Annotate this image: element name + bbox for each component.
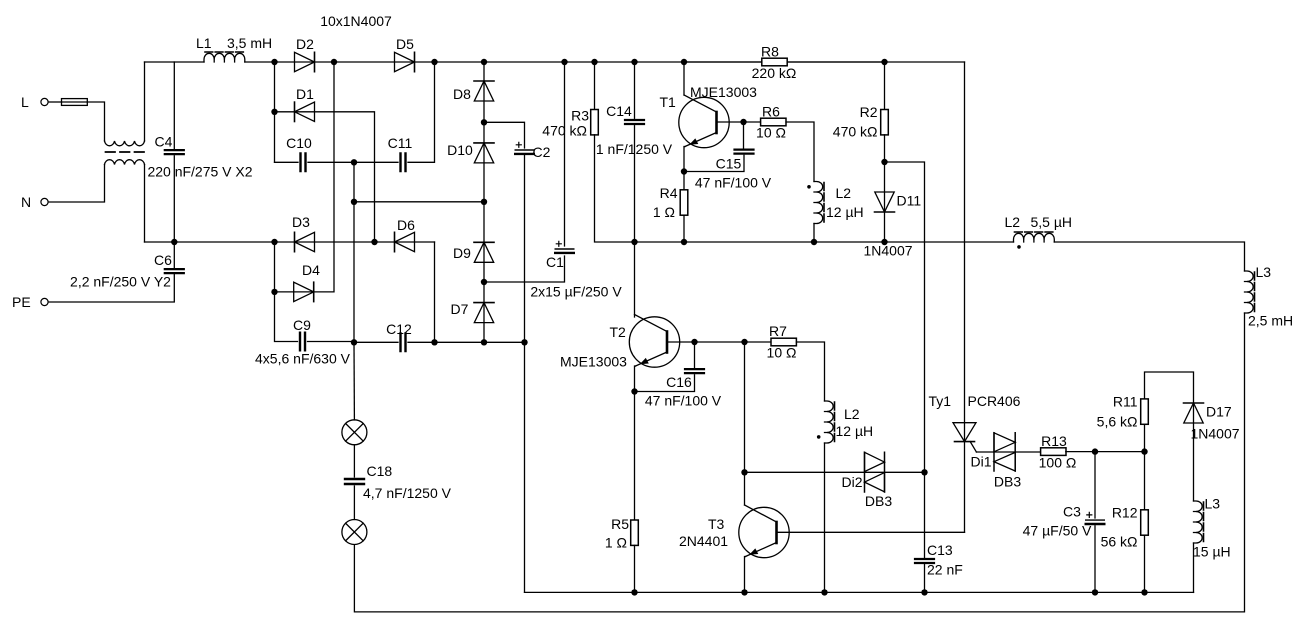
svg-text:10 Ω: 10 Ω — [756, 125, 786, 141]
wire node to C2 — [484, 122, 525, 148]
wire C14 down to node — [634, 126, 636, 242]
wire rail to R2 — [884, 62, 886, 110]
wire C2 node down to bottom rail — [524, 342, 526, 592]
diac Di2 — [841, 452, 892, 509]
junction T3 collector node — [741, 469, 747, 475]
wire node to R6 — [744, 121, 761, 123]
svg-text:D1: D1 — [296, 86, 314, 102]
svg-text:Di2: Di2 — [841, 474, 862, 490]
svg-text:R12: R12 — [1112, 505, 1138, 521]
junction C14 top — [631, 59, 637, 65]
wire node to C11 — [354, 161, 398, 163]
capacitor C18 — [345, 463, 452, 501]
svg-text:1 Ω: 1 Ω — [653, 204, 675, 220]
wire lamp 1 to C18 — [353, 445, 355, 477]
wire D11 node right and down — [885, 162, 925, 472]
svg-text:PCR406: PCR406 — [968, 393, 1021, 409]
svg-text:2,5 mH: 2,5 mH — [1248, 313, 1293, 329]
wire node to R4 — [683, 172, 685, 191]
svg-text:470 kΩ: 470 kΩ — [542, 123, 587, 139]
junction R3 top — [591, 59, 597, 65]
lamp LA1 — [342, 420, 367, 445]
wire C4 to lower rail — [173, 156, 175, 242]
wire C13 to bottom rail — [924, 563, 926, 593]
svg-text:15 µH: 15 µH — [1193, 544, 1231, 560]
svg-text:Di1: Di1 — [970, 454, 991, 470]
wire rail to T1 collector — [683, 62, 685, 95]
svg-text:D7: D7 — [451, 301, 469, 317]
wire to R7 node — [695, 341, 745, 343]
junction T1 base node — [740, 119, 746, 125]
junction T3 emitter bottom — [741, 589, 747, 595]
diode D1 — [295, 102, 315, 121]
inductor L3 (2,5 mH) — [1245, 264, 1294, 329]
junction Di2-C13 node — [921, 469, 927, 475]
svg-text:D4: D4 — [302, 262, 320, 278]
svg-text:R2: R2 — [860, 104, 878, 120]
wire node down to C3 — [1094, 452, 1096, 518]
diode D8 — [474, 81, 494, 101]
junction C3 bottom — [1092, 589, 1098, 595]
svg-text:220 kΩ: 220 kΩ — [752, 65, 797, 81]
junction C14-T2 collector node — [631, 239, 637, 245]
svg-text:D2: D2 — [296, 36, 314, 52]
inductor L3 (15 µH) — [1193, 496, 1231, 560]
svg-text:L2: L2 — [836, 185, 852, 201]
svg-text:D9: D9 — [453, 245, 471, 261]
junction T2 emitter node — [631, 388, 637, 394]
svg-text:22 nF: 22 nF — [927, 562, 963, 578]
wire mid link to diode chain — [354, 201, 484, 203]
wire lower rail left through D3 and D6 — [145, 241, 435, 243]
svg-text:12 µH: 12 µH — [826, 204, 864, 220]
svg-text:2N4401: 2N4401 — [679, 533, 728, 549]
wire inner bottom rail — [525, 591, 1194, 593]
svg-text:R13: R13 — [1041, 433, 1067, 449]
svg-text:10 Ω: 10 Ω — [767, 345, 797, 361]
capacitor C2 — [515, 142, 534, 154]
capacitor C11 — [401, 154, 406, 172]
wire L2 down to bottom rail — [824, 443, 826, 592]
svg-text:D6: D6 — [397, 217, 415, 233]
resistor R6 — [756, 104, 786, 141]
junction C13 bottom — [921, 589, 927, 595]
junction D1-D6 node — [371, 239, 377, 245]
wire rail to C4 — [173, 62, 175, 149]
junction T2 base-C16 node — [691, 339, 697, 345]
transistor T1 — [660, 84, 758, 148]
junction C10-C11 node — [351, 159, 357, 165]
wire T1 base to node — [717, 121, 744, 123]
junction R13-C3 node — [1092, 448, 1098, 454]
wire R6 to L2 coil — [786, 122, 814, 182]
svg-text:C10: C10 — [286, 135, 312, 151]
svg-text:1N4007: 1N4007 — [1190, 426, 1239, 442]
wire D4 row up to D2 node — [275, 62, 335, 292]
junction R5 bottom — [631, 589, 637, 595]
svg-text:R11: R11 — [1113, 394, 1138, 410]
junction D2 cathode node — [331, 59, 337, 65]
wire node to C12 — [354, 341, 398, 343]
wire node to R7 — [745, 341, 772, 343]
resistor R13 — [1039, 433, 1077, 471]
wire R2 down to node — [884, 135, 886, 162]
junction T1 collector — [681, 59, 687, 65]
svg-text:C16: C16 — [666, 374, 692, 390]
diode D17 — [1184, 403, 1204, 423]
junction C1 top — [561, 59, 567, 65]
svg-text:DB3: DB3 — [865, 493, 892, 509]
wire node down to C15 — [743, 122, 745, 150]
svg-text:C18: C18 — [367, 463, 393, 479]
resistor R7 — [767, 323, 797, 361]
wire C3 to bottom rail — [1094, 526, 1096, 593]
svg-text:C4: C4 — [155, 134, 173, 150]
inductor L3 2.5mH coil — [1245, 271, 1255, 313]
svg-text:47 nF/100 V: 47 nF/100 V — [645, 393, 722, 409]
transistor T3 — [679, 505, 789, 558]
wire T3 base to Ty1 cathode — [777, 531, 965, 533]
svg-text:L3: L3 — [1256, 264, 1272, 280]
svg-text:C9: C9 — [293, 317, 311, 333]
svg-text:L: L — [21, 94, 29, 110]
junction D9-D7 node — [481, 279, 487, 285]
wire R11 top over and through D17 — [1145, 372, 1194, 501]
junction R4 bottom — [681, 239, 687, 245]
wire R7 node down to diac row — [744, 342, 746, 472]
wire T2 base to C16 node — [667, 341, 695, 343]
common-mode choke TR1 top winding — [105, 62, 145, 146]
wire T3 emitter to bottom rail — [745, 557, 746, 593]
wire top rail through D2 and D5 — [245, 61, 965, 63]
wire Ty1 gate through Di1 to R13 — [976, 451, 1040, 453]
wire R8 to R2 node — [787, 61, 884, 63]
wire L3 to bottom rail end — [1193, 543, 1195, 592]
diac Di1 — [970, 433, 1021, 490]
svg-text:N: N — [21, 194, 31, 210]
diode D2 — [295, 52, 315, 71]
capacitor C15 — [735, 150, 754, 154]
resistor R4 — [680, 190, 688, 215]
wire node down to T2 collector — [634, 242, 636, 317]
junction D8-D10 node — [481, 119, 487, 125]
svg-text:C12: C12 — [386, 321, 412, 337]
wire to C10 — [275, 161, 299, 163]
wire C1 up to rail — [564, 62, 566, 246]
wire lower rail to C6 — [173, 242, 175, 268]
inductor L2 first coil — [814, 182, 824, 224]
resistor R12 — [1141, 510, 1149, 535]
svg-text:5,5 µH: 5,5 µH — [1031, 214, 1073, 230]
svg-text:Ty1: Ty1 — [929, 393, 952, 409]
wire D3 node down to C9 — [275, 242, 298, 342]
svg-text:R8: R8 — [761, 44, 779, 60]
wire R3 down to C14 node — [595, 135, 635, 242]
wire node to R11-R12 node — [1095, 451, 1145, 453]
junction D5 cathode node — [431, 59, 437, 65]
wire N terminal to choke secondary — [48, 165, 104, 203]
capacitor C12 — [401, 334, 406, 352]
wire node up to R11 — [1144, 424, 1146, 451]
inductor L1 coil — [204, 52, 245, 62]
inductor L2 5.5uH coil — [1014, 232, 1055, 242]
diode D5 — [395, 52, 415, 71]
wire node down to lamp 1 — [353, 342, 355, 420]
svg-text:C2: C2 — [533, 144, 551, 160]
resistor R2 — [881, 110, 889, 135]
capacitor C16 — [685, 369, 704, 373]
svg-text:47 µF/50 V: 47 µF/50 V — [1023, 523, 1092, 539]
wire T2 emitter down — [635, 366, 636, 392]
svg-text:T2: T2 — [610, 324, 627, 340]
junction R11-R12 node — [1141, 448, 1147, 454]
svg-text:12 µH: 12 µH — [836, 423, 874, 439]
svg-text:L3: L3 — [1205, 496, 1221, 512]
wire node through Di2 — [745, 471, 925, 473]
wire C12 to C2 node — [408, 341, 525, 343]
wire D1 row down to D6 node — [275, 112, 375, 242]
svg-text:R3: R3 — [571, 108, 589, 124]
junction D1 cathode — [271, 109, 277, 115]
svg-text:C3: C3 — [1063, 504, 1081, 520]
svg-text:C13: C13 — [927, 542, 953, 558]
junction mid link left — [351, 199, 357, 205]
svg-text:2,2 nF/250 V Y2: 2,2 nF/250 V Y2 — [70, 274, 171, 290]
wire R7 to L2 second coil — [796, 342, 824, 401]
wire lower rail middle — [635, 241, 1014, 243]
svg-text:R5: R5 — [611, 516, 629, 532]
capacitor C13 — [915, 559, 934, 563]
svg-text:4,7 nF/1250 V: 4,7 nF/1250 V — [363, 485, 452, 501]
wire emitter node down to R5 — [634, 392, 636, 521]
inductor L2 second coil — [825, 401, 835, 443]
wire T1 emitter down — [684, 147, 685, 172]
capacitor C1 — [555, 241, 574, 253]
wire L2 to L3 top — [1054, 242, 1244, 271]
thyristor Ty1 — [929, 393, 1021, 452]
wire node down to T3 collector — [744, 472, 746, 505]
wire C9 to node — [308, 341, 355, 343]
junction R12 bottom — [1141, 589, 1147, 595]
junction D10-D9 node — [481, 199, 487, 205]
junction C4-C6 node — [171, 239, 177, 245]
resistor R11 — [1141, 399, 1149, 424]
junction L2 bottom rail — [821, 589, 827, 595]
svg-text:MJE13003: MJE13003 — [690, 84, 757, 100]
wire C18 to lamp 2 — [353, 486, 355, 520]
lamp LA2 — [342, 520, 367, 545]
diode D11 — [875, 192, 895, 212]
svg-text:C1: C1 — [546, 254, 564, 270]
capacitor C3 — [1086, 512, 1105, 524]
transistor T2 — [560, 315, 680, 370]
inductor L2 (12 µH) first — [807, 182, 863, 224]
svg-text:T1: T1 — [660, 94, 677, 110]
junction R2-D11 node — [881, 159, 887, 165]
wire D2 anode node down to C10 — [274, 62, 276, 162]
wire node down to C13 — [924, 472, 926, 559]
capacitor C10 — [301, 154, 306, 172]
wire R12 to bottom rail — [1144, 535, 1146, 592]
capacitor C9 — [300, 333, 305, 351]
resistor R8 — [752, 44, 797, 81]
svg-text:C11: C11 — [388, 135, 413, 151]
svg-text:1N4007: 1N4007 — [863, 243, 912, 259]
svg-text:5,6 kΩ: 5,6 kΩ — [1097, 414, 1138, 430]
svg-text:2x15 µF/250 V: 2x15 µF/250 V — [530, 284, 622, 300]
diode D9 — [474, 242, 494, 262]
diode D7 — [474, 303, 494, 323]
junction R2 top — [881, 59, 887, 65]
svg-text:L2: L2 — [844, 406, 860, 422]
svg-text:C14: C14 — [606, 103, 632, 119]
wire R13 to C3 node — [1066, 451, 1095, 453]
diode D3 — [295, 232, 315, 251]
svg-text:R7: R7 — [769, 323, 787, 339]
svg-text:MJE13003: MJE13003 — [560, 354, 627, 370]
junction D2 anode node — [271, 59, 277, 65]
terminal N — [21, 194, 48, 210]
inductor L1 — [196, 35, 272, 62]
diode D10 — [474, 143, 494, 163]
inductor L3 15uH coil — [1194, 501, 1204, 543]
wire R4 to lower rail — [683, 215, 685, 242]
svg-text:D10: D10 — [447, 142, 473, 158]
svg-text:100 Ω: 100 Ω — [1039, 455, 1077, 471]
svg-text:D11: D11 — [897, 193, 922, 209]
diode D4 — [294, 282, 314, 301]
svg-text:3,5 mH: 3,5 mH — [227, 35, 272, 51]
wire rail to R3 — [594, 62, 596, 110]
wire R5 to bottom rail — [634, 545, 636, 592]
svg-text:10x1N4007: 10x1N4007 — [320, 13, 392, 29]
wire C15 to emitter node — [684, 155, 744, 171]
junction R7 node — [741, 339, 747, 345]
svg-text:L2: L2 — [1005, 214, 1021, 230]
junction D3 anode node — [271, 239, 277, 245]
wire top rail down through Ty1 — [964, 62, 966, 532]
wire T1 node to R8 — [684, 61, 762, 63]
common-mode choke TR1 core — [106, 151, 145, 153]
svg-text:R4: R4 — [660, 185, 678, 201]
resistor R3 — [591, 110, 599, 135]
svg-text:4x5,6 nF/630 V: 4x5,6 nF/630 V — [255, 351, 351, 367]
wire C16 to emitter node — [635, 375, 695, 392]
svg-text:47 nF/100 V: 47 nF/100 V — [695, 175, 772, 191]
wire node down to R12 — [1144, 452, 1146, 510]
junction D6 branch bottom — [431, 339, 437, 345]
svg-text:56 kΩ: 56 kΩ — [1101, 534, 1138, 550]
resistor R5 — [631, 520, 639, 545]
svg-text:470 kΩ: 470 kΩ — [833, 124, 878, 140]
junction lamp branch — [351, 339, 357, 345]
svg-text:C15: C15 — [716, 156, 742, 172]
wire node to C1 — [484, 256, 565, 282]
terminal PE — [12, 294, 48, 310]
terminal L — [21, 94, 48, 110]
junction C2 branch bottom — [521, 339, 527, 345]
wire L2 to lower rail — [813, 224, 815, 243]
wire fuse to choke primary — [87, 102, 104, 141]
svg-text:C6: C6 — [154, 252, 172, 268]
svg-text:DB3: DB3 — [994, 474, 1021, 490]
wire C11 up to D5 node — [408, 62, 435, 162]
wire C10 to node — [308, 161, 354, 163]
junction L2 bottom — [811, 239, 817, 245]
junction D8 top — [481, 59, 487, 65]
wire top rail left — [145, 61, 205, 63]
svg-text:220 nF/275 V X2: 220 nF/275 V X2 — [147, 164, 252, 180]
common-mode choke TR1 bottom winding — [105, 160, 145, 242]
wire diode chain vertical — [483, 62, 485, 342]
wire rail to C14 — [634, 62, 636, 118]
wire PE to C6 — [48, 273, 174, 302]
svg-text:L1: L1 — [196, 35, 212, 51]
junction D4 anode — [271, 289, 277, 295]
capacitor C14 — [625, 120, 644, 124]
svg-text:PE: PE — [12, 294, 31, 310]
wire D6 anode down to C12 rail — [434, 242, 436, 342]
junction D11 bottom — [881, 239, 887, 245]
svg-text:R6: R6 — [762, 104, 780, 120]
inductor L2 (5,5 µH) — [1005, 214, 1073, 249]
wire through D11 — [884, 162, 886, 242]
inductor L2 (12 µH) second — [817, 401, 873, 443]
capacitor C4 — [165, 150, 184, 154]
capacitor C6 — [165, 269, 184, 273]
svg-text:D3: D3 — [292, 214, 310, 230]
wire node down to C16 — [694, 342, 696, 369]
svg-text:D8: D8 — [453, 86, 471, 102]
svg-text:D17: D17 — [1206, 404, 1232, 420]
junction T1 emitter node — [681, 168, 687, 174]
junction D7 anode bottom — [481, 339, 487, 345]
wire outer bottom loop — [354, 313, 1244, 612]
diode D6 — [395, 232, 415, 251]
fuse F1 — [62, 99, 88, 106]
wire C10 node down to C9 rail — [353, 162, 355, 342]
wire L terminal to fuse — [48, 101, 61, 103]
svg-text:T3: T3 — [708, 516, 725, 532]
wire C2 down to rail — [524, 156, 526, 343]
svg-text:D5: D5 — [396, 36, 414, 52]
svg-text:1 Ω: 1 Ω — [605, 535, 627, 551]
